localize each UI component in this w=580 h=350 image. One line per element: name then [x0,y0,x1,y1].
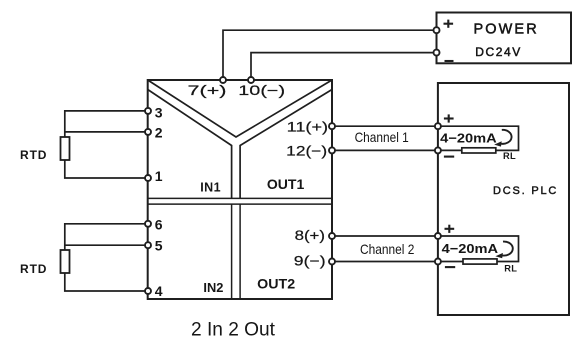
POWER box [437,13,572,64]
terminal 10 [248,77,254,83]
terminal 5 [145,242,151,248]
channel2 load loop [438,236,519,262]
svg-text:1: 1 [155,168,163,184]
wire channel2 plus (8 to DCS) [332,235,438,237]
svg-text:6: 6 [155,217,163,233]
svg-text:8(+): 8(+) [295,228,325,243]
svg-text:RTD: RTD [20,262,47,276]
svg-text:RL: RL [503,151,516,161]
channel1 minus sign [444,156,454,158]
RTD1 wire terminal 2 [65,131,148,133]
power minus sign [445,60,454,62]
svg-text:2: 2 [155,125,163,141]
wire channel1 resistor to minus terminal [438,149,462,151]
svg-text:4: 4 [155,283,163,299]
terminal 11 [329,123,335,129]
svg-text:2 In 2 Out: 2 In 2 Out [191,318,276,340]
wire terminal10 to power minus [251,53,437,79]
wire terminal7 to power plus [223,30,437,79]
terminal 9 [329,259,335,265]
terminal 2 [145,129,151,135]
channel2 feedback arrow [495,242,512,259]
terminal 6 [145,221,151,227]
svg-text:Channel 2: Channel 2 [360,241,415,257]
svg-text:POWER: POWER [474,21,539,37]
svg-text:DC24V: DC24V [475,45,522,59]
svg-text:4−20mA: 4−20mA [440,130,497,145]
DCS channel1 minus terminal [435,147,441,153]
RTD1 wire terminal 1 [65,160,148,178]
power plus terminal [434,27,440,33]
terminal 12 [329,147,335,153]
RTD2 wire terminal 5 [65,244,148,246]
svg-text:9(−): 9(−) [294,253,326,268]
svg-text:3: 3 [155,105,163,121]
svg-text:Channel 1: Channel 1 [355,129,409,145]
svg-text:4−20mA: 4−20mA [442,241,499,256]
wire channel2 minus (9 to DCS) [332,261,438,263]
RTD1 wire terminal 3 [65,111,148,137]
svg-text:RTD: RTD [20,148,47,162]
svg-text:7(+): 7(+) [188,83,227,98]
wire channel2 resistor to minus terminal [438,261,463,263]
horizontal divider upper line [148,197,332,199]
isolator module outline [148,80,332,299]
svg-text:OUT1: OUT1 [267,177,305,192]
wire channel1 minus (12 to DCS) [332,149,438,151]
power plus sign [444,20,454,28]
wire channel1 plus (11 to DCS) [332,125,438,127]
resistor RL channel2 [463,259,497,264]
channel1 plus sign [444,114,454,122]
channel2 minus sign [445,266,455,268]
power minus terminal [434,50,440,56]
svg-text:RL: RL [504,264,517,274]
svg-text:12(−): 12(−) [286,143,327,158]
channel2 plus sign [445,225,455,233]
isolation barrier V line [148,80,332,137]
terminal 3 [145,108,151,114]
channel1 feedback arrow [494,130,511,147]
divider IN2/OUT2 left line [231,204,233,299]
terminal 1 [145,175,151,181]
svg-text:IN2: IN2 [203,280,223,295]
svg-text:11(+): 11(+) [287,119,329,134]
terminal 7 [220,77,226,83]
resistor RL channel1 [462,148,496,153]
svg-text:IN1: IN1 [200,180,221,194]
svg-text:5: 5 [155,237,163,253]
terminal 4 [145,288,151,294]
svg-text:DCS. PLC: DCS. PLC [493,185,558,197]
RTD2 wire terminal 4 [65,273,148,291]
svg-text:10(−): 10(−) [238,83,285,98]
terminal 8 [329,233,335,239]
resistor RTD1 [61,137,70,160]
RTD2 wire terminal 6 [65,224,148,250]
divider IN2/OUT2 right line [239,204,241,299]
DCS channel2 plus terminal [435,233,441,239]
resistor RTD2 [61,250,70,273]
DCS channel1 plus terminal [435,123,441,129]
IN1 funnel diagonal and divider left [148,90,232,199]
channel1 load loop [438,126,519,150]
OUT1 funnel diagonal and divider right [240,90,332,199]
svg-text:OUT2: OUT2 [257,276,295,291]
DCS PLC box [438,83,569,315]
DCS channel2 minus terminal [435,259,441,265]
horizontal divider lower line [148,203,332,205]
